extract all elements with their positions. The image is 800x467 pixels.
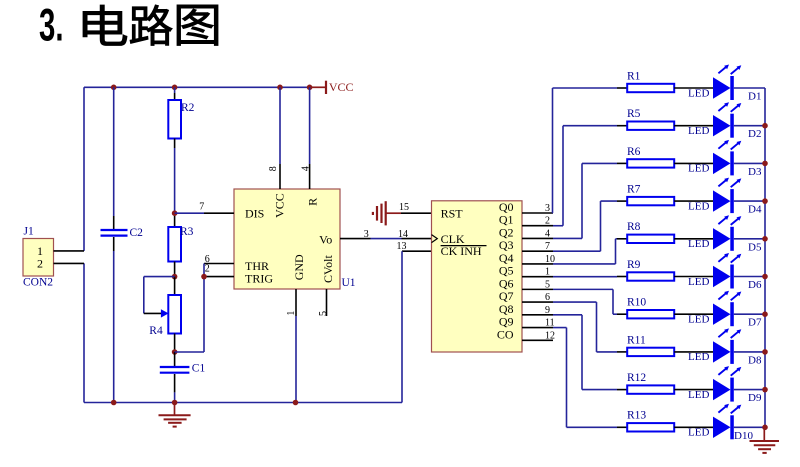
wire C2 bottom — [113, 237, 115, 403]
wire J1 pin2 — [54, 262, 85, 264]
svg-text:GND: GND — [292, 254, 306, 280]
junction dot bus at D5 — [762, 236, 768, 242]
wire bottom ground rail — [84, 402, 402, 404]
pin 7 wire DIS to R2-R3 node — [175, 212, 234, 214]
LED D8 — [713, 328, 741, 364]
wire cathode D6 — [734, 276, 765, 278]
svg-text:C2: C2 — [130, 227, 144, 239]
power VCC symbol — [310, 80, 354, 94]
title: 3. dian-lu-tu (circuit diagram) — [39, 0, 218, 51]
pin 1 wire GND of U1 — [295, 289, 297, 403]
pin 8 wire VCC of U1 — [279, 87, 281, 189]
pin 2 wire TRIG — [204, 276, 234, 278]
svg-text:15: 15 — [399, 202, 409, 213]
wire Q0 to R1 — [553, 88, 618, 213]
junction dot bottom rail at U1 GND — [293, 400, 299, 406]
junction dot bus at D8 — [762, 349, 768, 355]
pin 6 stub of Q7 — [522, 301, 553, 303]
wire VCC top rail — [84, 86, 310, 88]
resistor R5 — [617, 122, 713, 130]
svg-text:LED: LED — [688, 87, 709, 99]
wire R3 bottom — [174, 262, 176, 277]
counter U2 4017 body — [432, 201, 523, 352]
svg-text:D5: D5 — [748, 241, 762, 253]
wire THR-TRIG tie down to C1 node — [175, 264, 204, 353]
svg-text:R10: R10 — [627, 297, 646, 309]
junction dot bus at D10 — [762, 425, 768, 431]
LED D2 — [713, 102, 741, 138]
LED D5 — [713, 215, 741, 251]
svg-text:R13: R13 — [627, 410, 646, 422]
svg-text:VCC: VCC — [273, 193, 287, 218]
wire Q2 to R6 — [553, 163, 617, 238]
pin 6 wire THR — [204, 263, 234, 265]
wire Q4 to R8 — [553, 239, 617, 264]
svg-text:1: 1 — [286, 311, 297, 316]
svg-text:CO: CO — [497, 327, 514, 341]
svg-text:3: 3 — [545, 203, 550, 214]
wire Q6 to R10 — [553, 289, 617, 314]
svg-text:D1: D1 — [748, 91, 761, 103]
junction dot bus at D9 — [762, 387, 768, 393]
resistor R7 — [617, 197, 713, 205]
svg-text:2: 2 — [205, 264, 210, 275]
svg-text:LED: LED — [688, 163, 709, 175]
wire left rail lower (J1 pin2 down) — [83, 263, 85, 402]
pin 4 wire R of U1 — [309, 87, 311, 189]
svg-text:3: 3 — [364, 229, 369, 240]
junction dot R3-R4 node — [172, 274, 178, 280]
svg-text:4: 4 — [301, 166, 312, 171]
LED D6 — [713, 253, 741, 289]
wire cathode D7 — [734, 313, 765, 315]
svg-text:RST: RST — [441, 207, 464, 221]
ground below D10 — [750, 427, 780, 453]
wire R4 bottom — [174, 334, 176, 353]
svg-text:LED: LED — [688, 314, 709, 326]
junction dot VCC rail at R2 — [172, 85, 178, 91]
resistor R9 — [617, 272, 713, 280]
svg-text:LED: LED — [688, 427, 709, 439]
svg-text:R2: R2 — [181, 102, 195, 114]
svg-text:D6: D6 — [748, 279, 762, 291]
svg-text:CON2: CON2 — [23, 276, 53, 288]
svg-text:1: 1 — [545, 267, 550, 278]
LED D9 — [713, 366, 741, 402]
pin 7 stub of Q3 — [522, 250, 553, 252]
wire Q9 to R13 — [553, 328, 617, 428]
svg-text:R11: R11 — [627, 334, 646, 346]
junction dot bus at D3 — [762, 161, 768, 167]
pin 1 stub of Q5 — [522, 276, 553, 278]
resistor R10 — [617, 310, 713, 318]
LED D3 — [713, 140, 741, 176]
op-amp U1 555 body — [234, 189, 340, 289]
wiper arrow of R4 — [161, 309, 169, 317]
resistor R2 — [168, 100, 181, 139]
resistor R11 — [617, 348, 713, 356]
junction dot DIS node — [172, 210, 178, 216]
wire cathode D3 — [734, 162, 765, 164]
pin 5 stub of Q6 — [522, 288, 553, 290]
wire Q3 to R7 — [553, 201, 617, 251]
connector J1 body — [23, 239, 54, 277]
junction dot VCC rail at pin8 — [277, 85, 283, 91]
svg-text:8: 8 — [268, 166, 279, 171]
pin 10 stub of Q4 — [522, 263, 553, 265]
capacitor C2 — [101, 230, 128, 236]
junction dot bus at D4 — [762, 198, 768, 204]
svg-text:C1: C1 — [192, 363, 206, 375]
svg-text:TRIG: TRIG — [245, 271, 273, 285]
junction dot bottom rail at C2 — [111, 400, 117, 406]
wire C2 top — [113, 87, 115, 229]
junction dot bottom rail at C1 — [172, 400, 178, 406]
wire Q1 to R5 — [553, 126, 617, 226]
wire Q8 to R12 — [553, 315, 617, 390]
junction dot R4-C1 node — [172, 349, 178, 355]
clock wedge on CLK pin — [432, 235, 438, 243]
wire left rail upper (J1 pin1 to VCC rail) — [83, 87, 85, 251]
svg-text:7: 7 — [199, 202, 204, 213]
svg-text:R7: R7 — [627, 184, 641, 196]
resistor R3 — [168, 227, 181, 262]
wire R4 top — [174, 277, 176, 295]
resistor R12 — [617, 385, 713, 393]
wire cathode D2 — [734, 125, 765, 127]
svg-text:U1: U1 — [342, 277, 356, 289]
LED D1 — [713, 65, 741, 101]
svg-text:12: 12 — [545, 330, 555, 341]
svg-text:R5: R5 — [627, 108, 641, 120]
wire cathode D4 — [734, 200, 765, 202]
wire R4 wiper loop — [144, 277, 175, 314]
resistor R13 — [617, 423, 713, 431]
svg-text:CK INH: CK INH — [441, 244, 482, 258]
svg-text:R4: R4 — [149, 325, 163, 337]
svg-text:14: 14 — [398, 229, 408, 240]
resistor R1 — [617, 84, 713, 92]
svg-text:LED: LED — [688, 351, 709, 363]
LED D10 — [713, 404, 741, 440]
svg-text:D9: D9 — [748, 392, 762, 404]
wire R2 bottom — [174, 139, 176, 228]
LED D4 — [713, 178, 741, 214]
pin 5 stub CVolt — [326, 289, 328, 316]
svg-text:LED: LED — [688, 389, 709, 401]
wire Q5 to R9 — [553, 276, 617, 278]
wire cathode D1 — [734, 87, 765, 89]
ground at RST pin — [373, 201, 401, 225]
resistor R4 body — [168, 295, 181, 334]
wire J1 pin1 — [54, 250, 85, 252]
svg-text:R: R — [306, 198, 320, 206]
svg-text:R6: R6 — [627, 146, 641, 158]
pin 12 stub of CO — [522, 339, 553, 341]
wire cathode D9 — [734, 389, 765, 391]
pin 9 stub of Q8 — [522, 314, 553, 316]
resistor R6 — [617, 159, 713, 167]
pin 3 wire Vo to CLK — [340, 238, 432, 240]
svg-text:5: 5 — [545, 279, 550, 290]
junction dot VCC rail at pin4 — [307, 85, 313, 91]
junction dot bus at D6 — [762, 274, 768, 280]
svg-text:2: 2 — [545, 216, 550, 227]
svg-text:7: 7 — [545, 241, 550, 252]
overline of CK INH — [441, 245, 487, 247]
svg-text:LED: LED — [688, 125, 709, 137]
resistor R8 — [617, 235, 713, 243]
svg-text:9: 9 — [545, 305, 550, 316]
svg-text:5: 5 — [318, 311, 329, 316]
svg-text:4: 4 — [545, 228, 550, 239]
LED D7 — [713, 291, 741, 327]
svg-text:13: 13 — [397, 241, 407, 252]
wire cathode D5 — [734, 238, 765, 240]
svg-text:J1: J1 — [24, 225, 34, 237]
svg-text:R12: R12 — [627, 372, 646, 384]
svg-text:CVolt: CVolt — [321, 255, 335, 283]
svg-text:R1: R1 — [627, 70, 641, 82]
pin 4 stub of Q2 — [522, 237, 553, 239]
pin 2 stub of Q1 — [522, 225, 553, 227]
wire C1 top — [174, 352, 176, 366]
junction dot TRIG node — [201, 274, 207, 280]
svg-text:LED: LED — [688, 238, 709, 250]
junction dot bus at D7 — [762, 311, 768, 317]
svg-text:D3: D3 — [748, 166, 762, 178]
wire Q7 to R11 — [553, 302, 617, 352]
svg-text:6: 6 — [545, 292, 550, 303]
svg-text:LED: LED — [688, 200, 709, 212]
svg-text:D4: D4 — [748, 204, 762, 216]
wire C1 bottom — [174, 374, 176, 403]
svg-text:R9: R9 — [627, 259, 641, 271]
svg-text:R3: R3 — [180, 226, 194, 238]
svg-text:DIS: DIS — [245, 207, 264, 221]
pin 15 wire RST — [401, 212, 432, 214]
svg-text:Vo: Vo — [319, 233, 332, 247]
pin 3 stub of Q0 — [522, 212, 553, 214]
svg-text:VCC: VCC — [329, 80, 354, 94]
pin 11 stub of Q9 — [522, 327, 553, 329]
svg-text:D2: D2 — [748, 128, 761, 140]
wire common cathode bus — [764, 88, 766, 427]
wire cathode D10 — [734, 426, 765, 428]
ground below C1 — [159, 403, 191, 427]
wire cathode D8 — [734, 351, 765, 353]
svg-text:R8: R8 — [627, 221, 641, 233]
junction dot bus at D2 — [762, 123, 768, 129]
junction dot VCC rail at C2 — [111, 85, 117, 91]
svg-text:D8: D8 — [748, 354, 762, 366]
svg-text:3.: 3. — [39, 0, 64, 51]
capacitor C1 — [160, 367, 190, 373]
svg-text:LED: LED — [688, 276, 709, 288]
svg-text:D7: D7 — [748, 317, 762, 329]
svg-text:2: 2 — [37, 257, 43, 271]
wire R2 top — [174, 87, 176, 100]
pin 13 wire CK INH to ground rail — [402, 251, 432, 402]
